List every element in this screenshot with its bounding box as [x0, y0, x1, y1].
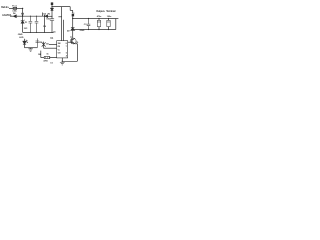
diode D2 label	[67, 30, 70, 32]
connector J2 top	[51, 2, 53, 5]
wire vertical left bus	[22, 8, 24, 20]
IC U1 box	[57, 41, 68, 58]
ground center	[60, 63, 65, 65]
svg-text:0.1: 0.1	[50, 62, 54, 64]
wire bottom-left	[25, 47, 38, 49]
svg-text:100u: 100u	[107, 16, 112, 18]
svg-text:5: 5	[66, 52, 67, 54]
wire top horizontal mid	[52, 6, 70, 8]
output labels top	[96, 10, 116, 13]
diode D4 input	[13, 15, 16, 18]
svg-text:LED: LED	[19, 37, 24, 39]
wire x52 column	[51, 5, 53, 8]
capacitor C1	[29, 16, 33, 32]
wire output rail bottom	[73, 29, 116, 31]
wire vertical right short	[70, 7, 73, 14]
svg-text:R2: R2	[48, 14, 51, 16]
wire output rail top	[73, 18, 116, 20]
junction mid-left	[22, 16, 23, 17]
wire bottom rail left	[23, 31, 54, 33]
LED arrows	[26, 40, 28, 43]
svg-text:4700: 4700	[43, 59, 48, 62]
svg-text:R9: R9	[43, 26, 46, 28]
svg-text:LiFePO4-: LiFePO4-	[2, 14, 12, 17]
svg-text:Output+: Output+	[96, 10, 105, 13]
wire top rail left	[23, 15, 45, 17]
capacitor C7 electrolytic	[107, 19, 110, 30]
IC pin text rows	[58, 43, 68, 57]
junction IC ground	[62, 61, 63, 62]
svg-text:Batt.In+: Batt.In+	[1, 6, 10, 9]
wire input top	[9, 7, 13, 9]
svg-text:3V3: 3V3	[24, 28, 28, 30]
transistor Q1	[70, 38, 76, 44]
junction x52 top	[51, 6, 52, 7]
wire to IC pin2	[44, 47, 57, 49]
IC U1 label	[50, 38, 54, 40]
wire emitter down	[75, 44, 78, 62]
wire vertical mid1	[61, 7, 63, 41]
svg-text:Z1: Z1	[25, 22, 28, 24]
wire input bottom	[10, 15, 13, 17]
junction dots rail bottom	[30, 32, 31, 33]
resistor R5 bottom-left	[36, 38, 40, 47]
wire tick mid	[58, 16, 61, 18]
capacitor C5 x52	[50, 19, 54, 21]
diode on left bus	[21, 13, 23, 16]
svg-text:470u: 470u	[97, 15, 102, 18]
wire IC ground	[62, 58, 77, 61]
svg-text:8: 8	[66, 43, 67, 45]
zener D1 label	[25, 22, 28, 24]
svg-text:Fuse: Fuse	[12, 5, 18, 7]
label small col44	[43, 26, 46, 28]
transistor Q1 label	[70, 37, 79, 44]
svg-text:GN: GN	[58, 53, 61, 55]
wire rail after diode	[48, 15, 52, 17]
wire diode to Q1	[72, 30, 74, 38]
diode D4 label	[13, 12, 16, 15]
svg-text:C6: C6	[53, 32, 56, 34]
svg-text:U1: U1	[50, 38, 54, 40]
label near rail end	[53, 32, 56, 34]
diode D5 x52	[51, 8, 54, 10]
wire vertical left of resistor	[40, 51, 42, 58]
wire stub above series diode	[42, 13, 44, 17]
LED DL1 bottom-left	[23, 39, 26, 48]
label 3V3 node	[24, 28, 28, 30]
svg-text:Vc: Vc	[58, 50, 60, 52]
capacitor C2	[35, 16, 39, 32]
label C5	[48, 14, 51, 16]
resistor R4 labels	[38, 53, 54, 64]
wire inductor down	[72, 16, 74, 27]
diode X D6	[42, 42, 46, 49]
diode D3 label	[43, 14, 46, 16]
svg-text:GND: GND	[80, 30, 85, 32]
node Vin+ label	[1, 6, 10, 9]
column x44 vertical	[43, 18, 45, 33]
junction diode bottom	[72, 29, 74, 31]
junction L1 rail	[72, 18, 73, 19]
inductor L1 top	[72, 13, 75, 16]
label GND left	[18, 34, 23, 36]
label GND text	[80, 30, 85, 32]
svg-text:R4: R4	[38, 53, 41, 56]
LED DL1 label	[19, 37, 24, 39]
ground left	[28, 48, 32, 52]
diode D2	[71, 28, 75, 31]
wire to IC pin1	[49, 44, 57, 46]
svg-text:SW: SW	[58, 43, 61, 45]
resistor R5 label	[39, 42, 42, 44]
node Vin- label	[2, 14, 12, 17]
label value mid	[46, 19, 51, 21]
cap value labels	[97, 15, 112, 18]
svg-text:FB: FB	[58, 46, 61, 48]
fuse F1	[13, 7, 17, 9]
svg-text:7: 7	[66, 46, 67, 48]
resistor R4	[41, 57, 57, 59]
junction dots output	[88, 18, 89, 19]
wire vertical mid2	[63, 20, 65, 41]
junction dots rail1	[30, 16, 31, 17]
svg-text:D2: D2	[67, 30, 70, 32]
svg-text:1k: 1k	[46, 54, 49, 56]
svg-text:Terminal: Terminal	[106, 10, 116, 13]
fuse F1 label	[12, 5, 18, 12]
capacitor C3 label	[84, 24, 87, 26]
diode D3 series	[45, 15, 48, 18]
capacitor C3	[87, 19, 91, 30]
diode X label	[46, 44, 49, 46]
capacitor C4 electrolytic	[97, 19, 100, 30]
output terminal right	[115, 19, 117, 30]
svg-text:GND: GND	[18, 34, 23, 36]
zener D1	[21, 20, 24, 24]
junction top-left	[22, 8, 23, 9]
wire base Q1	[68, 41, 72, 43]
